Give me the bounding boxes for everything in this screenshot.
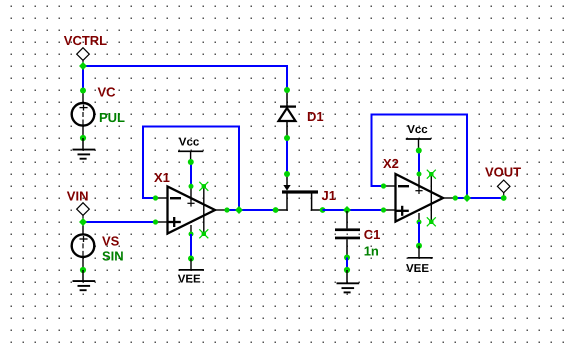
node dot C1 ground	[344, 267, 350, 273]
svg-text:VEE: VEE	[178, 273, 201, 285]
junction dot X1 out feedback	[235, 206, 243, 214]
pin dot VEE pin X1	[189, 232, 194, 237]
svg-text:VIN: VIN	[67, 189, 89, 204]
wire VEE X2	[418, 222, 420, 246]
wire VCTRL top horizontal	[83, 66, 287, 90]
wire X1 feedback box	[143, 127, 239, 211]
node dot C1 bottom	[344, 255, 350, 261]
wire Vcc X2	[418, 151, 420, 175]
svg-text:VC: VC	[98, 85, 117, 100]
pin dot X2 out	[453, 195, 458, 200]
pin dot Vcc supply X2	[416, 148, 422, 154]
capacitor C1	[335, 211, 360, 258]
op-amp X2	[384, 174, 456, 222]
wire C1 to ground	[346, 258, 348, 271]
svg-text:X1: X1	[154, 170, 170, 185]
node dot VC bottom	[80, 135, 86, 141]
svg-text:PUL: PUL	[99, 110, 125, 125]
JFET J1	[277, 174, 323, 210]
supply VEE X1	[179, 259, 204, 270]
node dot VS bottom	[80, 267, 86, 273]
node VOUT diamond	[497, 180, 510, 197]
ground below VC	[73, 138, 96, 159]
pin dot J1 source	[273, 207, 279, 213]
pin dot X1 out	[224, 207, 229, 212]
wire X2 feedback box	[372, 115, 468, 199]
svg-text:1n: 1n	[364, 243, 379, 258]
NC pin marker X2 bottom	[427, 217, 436, 226]
svg-text:D1: D1	[307, 109, 324, 124]
supply Vcc X1	[178, 151, 203, 162]
pin dot Vcc pin X1	[189, 184, 194, 189]
node dot D1 top	[284, 87, 290, 93]
junction dot VIN	[79, 218, 87, 226]
NC pin marker X1 top	[199, 182, 208, 191]
pin dot X1 minus	[153, 195, 158, 200]
svg-text:X2: X2	[383, 156, 399, 171]
wire X2 output	[455, 197, 504, 199]
node dot D1 bottom	[284, 135, 290, 141]
node VCTRL diamond	[77, 48, 90, 66]
svg-text:VOUT: VOUT	[485, 165, 521, 180]
junction dot X2 out feedback	[463, 194, 471, 202]
pin dot X2 minus	[381, 183, 386, 188]
supply VEE X2	[408, 246, 433, 258]
node dot VOUT	[501, 195, 507, 201]
svg-text:C1: C1	[364, 227, 381, 242]
svg-text:VCTRL: VCTRL	[64, 33, 107, 48]
supply Vcc X2	[406, 139, 431, 151]
pin dot Vcc supply X1	[188, 159, 194, 165]
svg-text:Vcc: Vcc	[407, 124, 428, 136]
NC pin marker X1 bottom	[199, 229, 208, 238]
pin dot J1 drain	[320, 207, 326, 213]
ground below C1	[337, 270, 360, 292]
junction dot VCTRL corner	[79, 62, 87, 70]
pin dot Vcc pin X2	[417, 172, 422, 177]
wire VCTRL to VC source	[82, 66, 84, 91]
voltage source VC	[72, 91, 95, 138]
svg-text:VEE: VEE	[406, 263, 429, 275]
wire VEE X1	[190, 234, 192, 259]
pin dot VEE supply X2	[416, 243, 422, 249]
diode D1	[279, 90, 297, 138]
svg-text:J1: J1	[322, 188, 336, 203]
ground below VS	[73, 270, 96, 290]
junction dot C1 top	[343, 206, 351, 214]
wire J1 drain to C1 junction to X2 plus	[323, 209, 384, 211]
voltage source VS	[72, 222, 95, 270]
node dot VC top	[80, 88, 86, 94]
wire Vcc X1	[190, 162, 192, 186]
pin dot J1 gate	[284, 171, 290, 177]
pin dot X1 plus	[153, 219, 158, 224]
svg-text:Vcc: Vcc	[179, 136, 200, 148]
NC pin marker X2 top	[427, 170, 436, 179]
node VIN diamond	[77, 203, 90, 221]
op-amp X1	[156, 186, 227, 234]
svg-text:SIN: SIN	[102, 248, 124, 263]
pin dot X2 plus	[381, 207, 386, 212]
wire diode branch lower	[286, 138, 288, 174]
wire VIN row	[83, 221, 156, 223]
pin dot VEE pin X2	[417, 220, 422, 225]
wire X1 output row	[227, 209, 276, 211]
svg-text:VS: VS	[102, 233, 120, 248]
pin dot VEE supply X1	[188, 256, 194, 262]
